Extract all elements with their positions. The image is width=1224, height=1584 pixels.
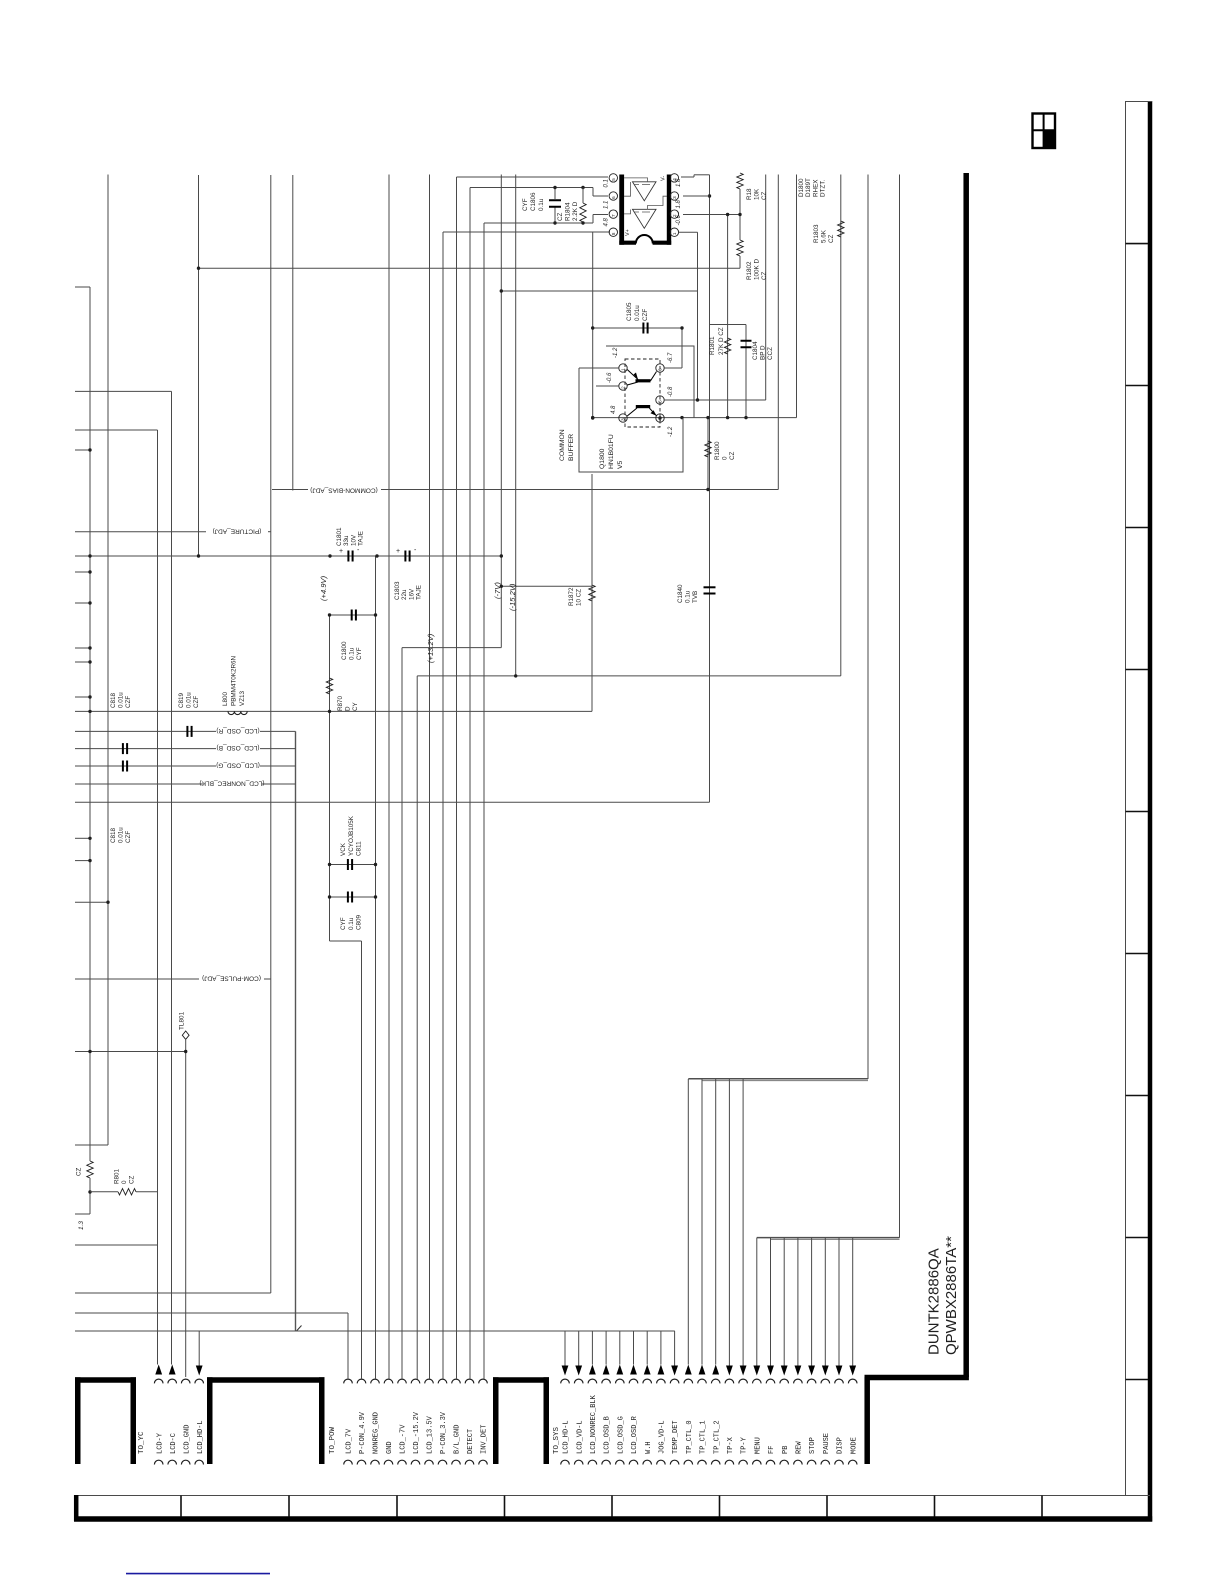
svg-text:P-CON_4.9V: P-CON_4.9V [359,1411,367,1454]
svg-text:DETECT: DETECT [467,1429,475,1454]
svg-text:-0.6: -0.6 [607,372,613,383]
svg-text:(LCD_OSD_G): (LCD_OSD_G) [216,762,260,769]
svg-text:(COMMON-BIAS_ADJ): (COMMON-BIAS_ADJ) [310,486,378,493]
svg-text:+: + [396,548,400,555]
svg-text:10V: 10V [350,534,357,546]
svg-text:CYF: CYF [522,198,529,211]
svg-text:PB: PB [782,1446,790,1454]
svg-text:CCZ: CCZ [767,347,774,360]
svg-text:0.01u: 0.01u [634,305,641,321]
svg-text:(+4.9V): (+4.9V) [319,575,328,601]
svg-text:4.8: 4.8 [604,217,610,226]
svg-text:C811: C811 [356,841,363,856]
svg-text:TVB: TVB [692,591,699,603]
svg-text:2.2K D: 2.2K D [572,201,579,221]
svg-text:(LCD_OSD_R): (LCD_OSD_R) [216,727,259,734]
svg-text:C1840: C1840 [677,584,684,603]
svg-text:CZ: CZ [761,191,768,200]
svg-text:INV_DET: INV_DET [481,1425,489,1454]
svg-text:C1805: C1805 [626,302,633,321]
svg-text:BUFFER: BUFFER [568,434,575,461]
svg-text:C1800: C1800 [341,641,348,660]
svg-text:TP_CTL_1: TP_CTL_1 [700,1420,708,1454]
svg-text:DISP: DISP [837,1437,845,1454]
svg-text:R870: R870 [337,695,344,711]
svg-text:C1804: C1804 [752,341,759,360]
svg-text:RHEX: RHEX [812,179,819,197]
svg-text:R1801: R1801 [709,336,716,355]
svg-text:C1801: C1801 [336,527,343,546]
svg-text:0.01u: 0.01u [118,827,125,843]
svg-text:CZ: CZ [129,1175,136,1184]
svg-text:TO_SYS: TO_SYS [553,1426,561,1454]
svg-text:R18: R18 [746,188,753,200]
svg-text:-1.2: -1.2 [613,347,619,358]
svg-text:REW: REW [796,1441,804,1454]
svg-text:100K D: 100K D [754,259,761,280]
svg-text:33u: 33u [343,535,350,546]
svg-text:C819: C819 [178,692,185,708]
svg-text:TAJE: TAJE [416,585,423,600]
svg-text:YCYOJB105K: YCYOJB105K [348,815,355,856]
svg-text:10K: 10K [754,188,761,200]
svg-text:1: 1 [621,368,626,371]
svg-text:5: 5 [658,400,663,403]
svg-text:DUNTK2886QA: DUNTK2886QA [926,1248,943,1355]
svg-text:0.1u: 0.1u [684,590,691,603]
svg-text:(+13.2V): (+13.2V) [426,633,435,663]
svg-text:6: 6 [611,196,616,199]
svg-text:(-7V): (-7V) [493,582,502,599]
svg-text:R1803: R1803 [813,224,820,243]
svg-text:5: 5 [611,178,616,181]
svg-text:27K D CZ: 27K D CZ [718,327,725,355]
svg-text:0.01u: 0.01u [118,692,125,708]
svg-text:D1800: D1800 [798,178,805,197]
svg-text:(LCD_OSD_B): (LCD_OSD_B) [217,744,260,751]
svg-text:QPWBX2886TA**: QPWBX2886TA** [943,1236,960,1355]
svg-text:3: 3 [621,418,626,421]
svg-text:-0.6: -0.6 [676,214,682,225]
svg-text:-6.7: -6.7 [668,352,674,363]
svg-text:V5: V5 [617,460,624,469]
svg-text:TEMP_DET: TEMP_DET [672,1420,680,1454]
svg-text:+: + [339,548,343,555]
svg-text:22u: 22u [401,589,408,600]
svg-text:LCD_OSD_R: LCD_OSD_R [631,1415,639,1454]
svg-text:LCD_-7V: LCD_-7V [400,1424,408,1454]
svg-text:CZ: CZ [729,451,736,460]
svg-text:PBMM4T0K2R6N: PBMM4T0K2R6N [231,656,238,706]
svg-text:LCD_-15.2V: LCD_-15.2V [413,1411,421,1454]
svg-text:8: 8 [611,232,616,235]
svg-text:LCD_HD-L: LCD_HD-L [563,1420,571,1454]
svg-text:1.8: 1.8 [676,178,682,187]
svg-text:(PICTURE_ADJ): (PICTURE_ADJ) [213,527,262,534]
svg-text:4.8: 4.8 [611,405,617,414]
svg-text:3: 3 [672,196,677,199]
svg-text:1.3: 1.3 [78,1221,85,1230]
svg-text:LCD_GND: LCD_GND [183,1425,191,1454]
svg-text:R1802: R1802 [746,261,753,280]
svg-text:L800: L800 [222,691,229,706]
svg-text:TP-Y: TP-Y [741,1436,749,1454]
svg-text:TL801: TL801 [179,1011,186,1030]
svg-text:GND: GND [386,1441,394,1454]
svg-text:R1872: R1872 [568,587,575,606]
svg-text:VZ13: VZ13 [239,690,246,706]
svg-text:STOP: STOP [809,1437,817,1454]
svg-text:CZF: CZF [642,309,649,321]
svg-text:D: D [345,706,352,711]
svg-text:PAUSE: PAUSE [823,1433,831,1454]
svg-text:0.1u: 0.1u [538,198,545,211]
svg-text:0.1u: 0.1u [348,647,355,660]
svg-text:TP-X: TP-X [727,1436,735,1454]
svg-text:5.6K: 5.6K [821,229,828,243]
svg-text:LCD-Y: LCD-Y [156,1432,164,1454]
svg-text:(COM-PULSE_ADJ): (COM-PULSE_ADJ) [202,975,261,982]
svg-text:LCD_OSD_G: LCD_OSD_G [617,1416,625,1454]
svg-text:C818: C818 [110,692,117,708]
svg-text:FF: FF [768,1446,776,1454]
svg-text:CZF: CZF [125,696,132,708]
svg-text:R1800: R1800 [714,441,721,460]
svg-text:MENU: MENU [754,1437,762,1454]
svg-text:0: 0 [121,1180,128,1184]
svg-text:CZ: CZ [828,234,835,243]
svg-text:MODE: MODE [850,1437,858,1454]
svg-text:R1804: R1804 [565,202,572,221]
svg-text:16V: 16V [408,588,415,600]
svg-text:V-: V- [661,176,667,181]
svg-text:CZ: CZ [557,212,564,221]
svg-text:0.01u: 0.01u [186,692,193,708]
svg-text:TAJE: TAJE [358,531,365,546]
svg-text:LCD-C: LCD-C [170,1433,178,1454]
svg-text:B/L_GND: B/L_GND [454,1425,462,1454]
svg-text:6: 6 [658,368,663,371]
svg-text:Q1800: Q1800 [599,448,606,469]
svg-text:7: 7 [611,214,616,217]
svg-text:CYF: CYF [356,647,363,660]
svg-text:W.H: W.H [645,1441,653,1454]
svg-text:(LCD_NONREC_BLK): (LCD_NONREC_BLK) [199,780,264,787]
svg-text:CZ: CZ [761,271,768,280]
svg-text:C1806: C1806 [530,192,537,211]
svg-text:LCD_OSD_B: LCD_OSD_B [604,1416,612,1454]
svg-text:0.1u: 0.1u [348,917,355,930]
svg-text:-0.8: -0.8 [668,386,674,397]
svg-text:1.1: 1.1 [604,201,610,209]
svg-text:CZF: CZF [125,831,132,843]
svg-text:TP_CTL_0: TP_CTL_0 [686,1420,694,1454]
svg-text:C1803: C1803 [394,581,401,600]
svg-text:0: 0 [722,456,729,460]
svg-text:CY: CY [352,701,359,711]
svg-text:C818: C818 [110,827,117,843]
svg-text:V+: V+ [625,229,631,236]
svg-text:LCD_NONREC_BLK: LCD_NONREC_BLK [590,1394,598,1454]
svg-text:LCD_HD-L: LCD_HD-L [197,1420,205,1454]
svg-text:LCD_13.5V: LCD_13.5V [427,1415,435,1454]
svg-text:TO_YC: TO_YC [138,1431,146,1454]
svg-text:-1.2: -1.2 [668,426,674,437]
svg-text:DTZT.: DTZT. [820,180,827,197]
svg-text:1.8: 1.8 [676,199,682,208]
svg-text:CZF: CZF [193,696,200,708]
svg-text:NONREG_GND: NONREG_GND [373,1412,381,1454]
svg-text:R801: R801 [114,1168,121,1184]
svg-text:BP D: BP D [759,345,766,360]
svg-text:P-CON_3.3V: P-CON_3.3V [440,1411,448,1454]
svg-text:LCD_VD-L: LCD_VD-L [576,1420,584,1454]
svg-text:2: 2 [621,386,626,389]
svg-text:(-15.2V): (-15.2V) [508,583,517,611]
svg-text:CYF: CYF [340,917,347,930]
svg-text:C809: C809 [356,914,363,930]
svg-text:1: 1 [672,232,677,235]
svg-text:LCD_7V: LCD_7V [346,1428,354,1454]
svg-text:D189T: D189T [805,178,812,197]
svg-text:VCK: VCK [340,842,347,856]
svg-text:CZ: CZ [76,1168,83,1176]
svg-text:COMMON: COMMON [559,429,566,461]
svg-text:10 CZ: 10 CZ [576,589,583,606]
svg-text:0.1: 0.1 [604,179,610,187]
svg-text:TP_CTL_2: TP_CTL_2 [713,1420,721,1454]
svg-text:HN1B01FU: HN1B01FU [608,434,615,469]
svg-text:TO_POW: TO_POW [329,1426,337,1454]
svg-text:JOG_VD-L: JOG_VD-L [659,1420,667,1454]
